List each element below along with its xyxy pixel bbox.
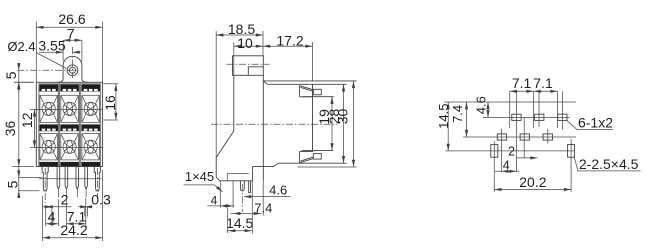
small pad mid 2: [520, 134, 529, 140]
svg-text:20.2: 20.2: [519, 174, 546, 190]
housing centerline: [211, 123, 337, 125]
svg-text:4: 4: [211, 194, 218, 208]
mounting hole inner: [69, 67, 75, 73]
dim 19 vertical: [316, 97, 334, 151]
thin pin c: [76, 167, 79, 190]
dim 5 lower left: [4, 166, 42, 198]
body outline: [36, 82, 102, 166]
tab centerline: [227, 63, 270, 65]
dim 4 (middle bottom): [207, 181, 234, 208]
tab dome: [63, 56, 82, 78]
middle pad row line: [463, 136, 576, 138]
dim 30 vertical: [335, 81, 356, 167]
wide pin left (2.5x4.5): [42, 167, 48, 217]
svg-text:1×45: 1×45: [185, 169, 214, 184]
svg-text:7.4: 7.4: [254, 200, 272, 215]
svg-text:12: 12: [19, 112, 35, 128]
thin pin d: [85, 167, 88, 190]
dim 20.2: [494, 174, 571, 191]
svg-text:6-1x2: 6-1x2: [578, 115, 613, 131]
row centerlines: [36, 109, 102, 147]
svg-text:16: 16: [102, 95, 118, 111]
dim 7.1 bottom: [66, 198, 86, 226]
dim 7.1 7.1 top: [510, 75, 558, 93]
big pad row line: [446, 150, 575, 152]
front face lower vertical: [215, 158, 217, 178]
mounting tab (left view): [18, 47, 88, 82]
dim 26.6 top: [36, 11, 102, 82]
svg-text:14.5: 14.5: [436, 104, 451, 129]
pad center verticals: [494, 91, 571, 192]
hole centerline vertical: [72, 47, 74, 78]
housing bottom extension for dim 30: [297, 166, 356, 168]
dim 14.5 right view: [436, 102, 451, 151]
leader 2-2.5x4.5: [574, 156, 640, 172]
svg-text:4: 4: [48, 208, 56, 224]
small pad mid 1: [497, 134, 506, 140]
dim ref verticals 7.1: [510, 91, 558, 128]
svg-text:7.1: 7.1: [533, 75, 553, 91]
dim 18.5: [216, 21, 263, 157]
housing top edge: [263, 80, 356, 82]
svg-text:5: 5: [4, 180, 20, 188]
big pad right: [568, 145, 575, 158]
latch clip bottom: [299, 152, 321, 163]
bottom step to housing: [252, 166, 254, 180]
svg-text:17.2: 17.2: [276, 32, 303, 48]
small pad top 1: [512, 114, 521, 120]
housing right wall: [312, 84, 314, 150]
terminal cell column 3: [81, 84, 100, 166]
front slope: [216, 131, 234, 158]
inner frame lines: [39, 84, 101, 167]
dim 36 left: [2, 82, 34, 166]
skirt line under body: [39, 178, 102, 180]
front face upper vertical: [233, 75, 235, 131]
small pad top 2: [535, 114, 544, 120]
dim 3.55: [38, 38, 80, 54]
svg-text:Ø2.4: Ø2.4: [7, 39, 35, 54]
outline top line: [444, 101, 576, 103]
dim 2 (pin offset): [42, 191, 71, 216]
dim 7.4 right view: [450, 102, 468, 137]
dim 2 right view: [508, 144, 537, 159]
svg-text:3.55: 3.55: [38, 38, 65, 54]
svg-text:0.3: 0.3: [91, 191, 111, 207]
dim 24.2 bottom: [43, 170, 103, 241]
svg-text:7.1: 7.1: [512, 75, 532, 91]
terminal cell column 1: [39, 84, 58, 166]
label 1x45 chamfer: [184, 169, 224, 193]
dim 16 right: [102, 84, 118, 120]
svg-text:14.5: 14.5: [226, 215, 253, 231]
dim 14.5 (middle): [226, 208, 253, 233]
recess bottom line: [302, 149, 334, 151]
top pad row line: [483, 116, 570, 118]
divider front/housing: [262, 75, 264, 181]
housing bottom step: [278, 162, 346, 164]
label dia 2.4 with leader: [7, 39, 66, 69]
dim 7.4 (middle): [231, 181, 273, 216]
1x45 chamfer: [216, 177, 220, 181]
dim 4.6 (middle): [244, 181, 291, 234]
side pin rear (thin): [249, 181, 251, 193]
dim 17.2: [263, 32, 313, 81]
housing bottom edge: [253, 163, 279, 166]
dim 28 vertical: [326, 84, 345, 163]
internal step: [227, 173, 249, 180]
small pad top 3: [558, 114, 567, 120]
svg-text:4: 4: [503, 159, 510, 173]
svg-text:7: 7: [67, 26, 75, 42]
hole centerline horizontal: [18, 69, 81, 71]
recess top line: [302, 96, 334, 98]
column dividers: [59, 84, 81, 167]
dim 7 (tab width): [63, 26, 82, 62]
dim 5 upper left: [3, 63, 34, 93]
svg-text:2: 2: [61, 191, 69, 207]
svg-text:2-2.5×4.5: 2-2.5×4.5: [579, 156, 639, 172]
svg-text:2: 2: [508, 144, 515, 158]
dim 4.6 right view: [474, 96, 490, 117]
dim 4 right view: [495, 159, 519, 173]
latch clip top: [299, 86, 321, 97]
wide pin right (2.5x4.5): [94, 167, 100, 199]
terminal cell column 2: [60, 84, 79, 166]
svg-text:5: 5: [3, 71, 19, 79]
small pad mid 3: [543, 134, 552, 140]
side body outline: [211, 75, 357, 181]
svg-text:10: 10: [237, 35, 253, 51]
dim 12 left (row pitch): [19, 109, 42, 147]
leader 6-1x2: [567, 115, 614, 131]
thin pin a: [57, 167, 60, 190]
dim 10: [234, 35, 263, 76]
thin pin b: [65, 167, 68, 190]
mounting hole outer: [67, 65, 78, 76]
pin centerline: [241, 184, 243, 212]
dim 0.3 (pin width): [78, 191, 111, 216]
tab base fillets: [57, 79, 87, 83]
svg-text:7.4: 7.4: [450, 105, 465, 123]
tab side profile: [227, 56, 270, 76]
dim 4 bottom: [46, 200, 59, 226]
side pin front (tapered): [240, 181, 244, 191]
svg-text:36: 36: [2, 121, 18, 137]
svg-text:4.6: 4.6: [269, 183, 287, 198]
bottom edge front: [220, 180, 253, 182]
svg-text:4.6: 4.6: [474, 96, 489, 114]
big pad left: [491, 145, 498, 158]
housing top chamfer: [263, 81, 267, 84]
svg-text:24.2: 24.2: [60, 222, 87, 238]
housing top step line: [267, 83, 346, 85]
svg-text:30: 30: [335, 109, 351, 125]
